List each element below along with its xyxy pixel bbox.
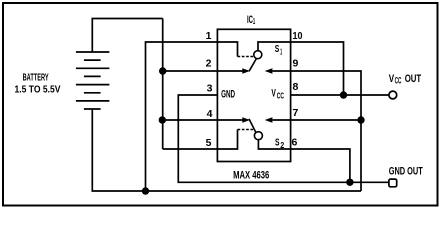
svg-text:5: 5	[206, 137, 212, 149]
switch S1 label	[275, 43, 283, 57]
battery B1	[76, 52, 110, 109]
svg-text:GND OUT: GND OUT	[389, 165, 423, 177]
op IC box U1 MAX4636	[217, 29, 290, 161]
svg-text:GND: GND	[221, 89, 235, 101]
node junction pin4 bus	[159, 116, 166, 123]
wire pin 4	[163, 119, 243, 121]
switch S1 wiper	[249, 59, 256, 72]
svg-text:V: V	[271, 88, 276, 100]
node junction pin7 pin9	[357, 116, 364, 123]
label VCC OUT	[389, 73, 422, 86]
svg-text:S: S	[275, 137, 280, 149]
wire pin 8 to VCC OUT	[291, 94, 389, 96]
terminal GND OUT	[389, 179, 397, 187]
switch S2 control dashed	[238, 129, 254, 131]
svg-text:OUT: OUT	[405, 73, 422, 85]
svg-text:3: 3	[207, 83, 213, 95]
wire battery positive top	[92, 19, 162, 53]
svg-text:9: 9	[293, 58, 299, 70]
svg-text:4: 4	[207, 108, 213, 120]
svg-text:CC: CC	[395, 76, 402, 86]
switch S1 pin10 internal trace	[258, 42, 291, 51]
switch S2 contact circle	[254, 132, 262, 140]
wire pin 1 control	[146, 42, 238, 191]
wire pin 5 control	[163, 130, 238, 150]
node junction pin6 gnd	[346, 179, 353, 186]
svg-text:MAX 4636: MAX 4636	[233, 170, 269, 182]
switch S2 arrow pin 4	[242, 117, 250, 123]
switch S2 label	[275, 137, 284, 150]
wire pin 2	[163, 70, 243, 72]
node junction pin1 battery negative	[142, 187, 149, 194]
svg-text:1: 1	[206, 30, 212, 42]
svg-text:7: 7	[293, 107, 299, 119]
wire pin 7	[291, 119, 361, 121]
terminal VCC OUT	[389, 91, 397, 99]
switch S1 control dashed	[238, 56, 254, 58]
wire battery negative bottom	[92, 109, 361, 191]
battery label BATTERY 1.5 TO 5.5V	[15, 72, 61, 95]
svg-text:1.5 TO 5.5V: 1.5 TO 5.5V	[15, 84, 61, 95]
switch S1 arrow pin 9	[265, 68, 291, 74]
svg-text:S: S	[275, 43, 280, 55]
svg-text:1: 1	[253, 16, 255, 26]
wire pin 6 to GND OUT	[291, 149, 350, 182]
wire pin 9 to battery negative	[291, 71, 361, 191]
switch S2 wiper	[249, 119, 256, 132]
svg-text:6: 6	[292, 137, 298, 149]
node junction pin2 bus	[159, 67, 166, 74]
switch S2 pin6 internal trace	[258, 140, 290, 149]
switch S1 arrow pin 2	[242, 68, 250, 74]
node junction pin10 pin8	[340, 91, 347, 98]
wire pin 3 to GND OUT	[178, 95, 389, 182]
label IC1	[247, 14, 255, 26]
wire battery positive bus vertical	[162, 19, 164, 150]
svg-text:8: 8	[293, 81, 299, 93]
svg-text:BATTERY: BATTERY	[23, 72, 49, 83]
wire pin 10	[291, 42, 344, 95]
svg-text:CC: CC	[277, 91, 285, 101]
svg-text:2: 2	[206, 57, 212, 69]
switch S2 arrow pin 7	[265, 117, 291, 123]
switch S1 contact circle	[254, 51, 262, 59]
svg-text:1: 1	[280, 46, 282, 56]
svg-text:10: 10	[293, 30, 303, 42]
label VCC inside IC	[271, 88, 284, 101]
